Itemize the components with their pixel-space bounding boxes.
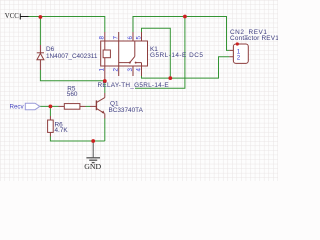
svg-text:4: 4: [135, 68, 142, 72]
resistor R5: [59, 104, 86, 110]
svg-text:1N4007_C402311: 1N4007_C402311: [46, 53, 98, 60]
resistor R6: [48, 116, 54, 137]
CN2 polarity dot: [236, 42, 239, 45]
junction coil node: [103, 79, 107, 83]
wire relay pin 5 loop: [142, 28, 171, 78]
net label VCC: [5, 13, 29, 20]
relay K1 body: [101, 32, 148, 80]
wire upper rail from relay pin 6 to CN2 pin 1: [133, 17, 229, 51]
wire coil node to Q1 collector: [104, 81, 106, 93]
svg-text:BC33740TA: BC33740TA: [109, 107, 144, 114]
wire Q1 emitter to ground rail: [104, 119, 106, 142]
svg-text:Recv: Recv: [10, 104, 25, 111]
svg-text:2: 2: [237, 55, 241, 62]
diode D6: [37, 45, 44, 70]
svg-text:3: 3: [127, 68, 134, 72]
junction node A (Recv/R5/R6): [49, 105, 53, 109]
junction upper rail branch: [183, 15, 187, 19]
svg-text:Contactor REV1: Contactor REV1: [230, 35, 278, 42]
connector CN2: [229, 44, 248, 63]
svg-text:8: 8: [99, 36, 106, 40]
svg-text:560: 560: [67, 91, 78, 98]
wire node A to R6 top: [49, 106, 51, 116]
junction ground rail: [91, 139, 95, 143]
junction VCC rail: [39, 15, 43, 19]
svg-text:GND: GND: [84, 162, 101, 171]
transistor Q1: [90, 93, 105, 119]
net flag Recv: [10, 103, 40, 110]
relay switch contact dot left: [129, 62, 131, 64]
wire relay pin 4 to CN2 pin 2: [142, 57, 230, 78]
svg-text:5: 5: [135, 36, 142, 40]
svg-text:2: 2: [113, 68, 120, 72]
wire VCC to diode cathode: [39, 17, 41, 45]
svg-text:4.7K: 4.7K: [55, 127, 69, 134]
svg-text:7: 7: [113, 36, 120, 40]
svg-text:G5RL-14-E DC5: G5RL-14-E DC5: [150, 52, 203, 59]
wire diode anode to coil node: [40, 70, 104, 81]
wire branch from upper rail down: [135, 17, 185, 89]
ground: [86, 141, 100, 163]
svg-text:D6: D6: [46, 46, 55, 53]
svg-text:VCC: VCC: [5, 13, 19, 20]
wire VCC rail to relay pin 8: [29, 17, 105, 33]
wire R6 bottom to ground rail: [50, 137, 104, 142]
junction contact net: [168, 76, 172, 80]
relay switch contact dot right: [135, 62, 137, 64]
svg-text:6: 6: [127, 36, 134, 40]
Q1 emitter arrow: [102, 111, 105, 114]
svg-text:1: 1: [99, 68, 106, 72]
wire R5 to Q1 base: [86, 105, 91, 107]
wire Recv to R5: [40, 105, 59, 107]
svg-text:RELAY-TH_G5RL-14-E: RELAY-TH_G5RL-14-E: [98, 82, 169, 89]
